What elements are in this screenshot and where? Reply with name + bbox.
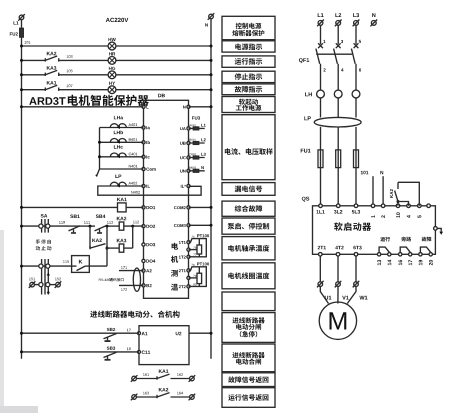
title CJK — [68, 95, 149, 106]
terminal box spare — [222, 292, 275, 311]
label RS-485 port CJK — [109, 278, 123, 281]
CT LP label — [115, 175, 121, 178]
junction N bus HR — [210, 59, 213, 62]
CT LH circle 2 — [334, 90, 342, 98]
softstarter top pin 1 — [371, 204, 375, 208]
softstarter top pin 1L1 — [319, 204, 323, 208]
pin Ib — [142, 141, 145, 144]
wire lamp row HG — [22, 74, 212, 76]
junction Nbus COM3 — [210, 224, 213, 227]
wire N402 label — [131, 191, 140, 194]
breaker QF1 linkage — [316, 53, 352, 55]
pin 2T1 — [187, 269, 190, 272]
wire LP 3 out — [355, 127, 357, 150]
net 101 label — [361, 171, 369, 174]
contact KA2 aux out wire right — [171, 396, 190, 398]
wire L2 drop to QF1 — [337, 25, 339, 44]
label motor temp 3 — [171, 270, 178, 277]
pin IL label — [146, 185, 150, 188]
pin DO3 label — [146, 243, 155, 246]
scan shading left edge — [0, 230, 4, 413]
motor terminal 4T2 — [335, 281, 342, 288]
pin N label — [183, 106, 186, 109]
power terminal L3 label — [353, 13, 359, 17]
terminal box softstart power text 2 — [236, 105, 262, 111]
softstarter bottom pin 4T2 — [336, 253, 340, 257]
wire FU1 2 out — [337, 150, 339, 206]
contact KA3 row HG wirenum — [67, 70, 73, 73]
wire N601 num — [190, 167, 197, 169]
softstarter aux contact 13 pins — [377, 253, 380, 256]
pushbutton SB2 wirenum — [127, 329, 131, 332]
pin Ia — [142, 126, 145, 129]
wire node113 drop — [106, 226, 108, 266]
lamp HY label HY — [109, 82, 115, 85]
wire N pin — [189, 106, 212, 108]
junction bus DO1 — [20, 206, 23, 209]
breaker QF1 pin 5 — [359, 40, 361, 43]
softstarter pin label 3L2 — [334, 210, 342, 214]
terminal box pump start stop ctrl — [222, 218, 275, 234]
pin DO1 — [142, 206, 145, 209]
label RS-485 port — [99, 279, 110, 281]
motor terminal 6T3 — [353, 281, 360, 288]
pushbutton SB3 symbol — [104, 352, 117, 360]
softstarter aux pin 13 — [377, 260, 381, 265]
selector SA contact3 — [39, 283, 50, 287]
softstarter aux pin 14 — [388, 260, 392, 266]
contact KA2 aux out label — [159, 388, 169, 392]
terminal box run signal return text 1 — [228, 394, 268, 401]
contact KA1 row HY label — [47, 81, 57, 84]
terminal L1 label — [14, 21, 19, 24]
wire COM3 — [189, 224, 212, 226]
softstarter aux contact 13 label — [380, 237, 390, 242]
pin Ic label — [146, 155, 149, 158]
contact KA2 aux out terminal right — [189, 394, 196, 401]
pin DO2 — [142, 225, 145, 228]
terminal box combined fault — [222, 201, 275, 216]
motor terminal 2T1 — [317, 281, 324, 288]
softstarter top pin 5L3 — [354, 204, 358, 208]
junction left bus HY — [20, 88, 23, 91]
selector SA text line1 — [36, 239, 51, 244]
terminal box breaker elec close text 1 — [232, 352, 264, 358]
breaker QF1 pole 3 blade — [351, 49, 355, 64]
pin B2 — [142, 284, 145, 287]
breaker QF1 pole 3 x-mark — [354, 43, 359, 48]
contact KA3 row HG label — [47, 66, 57, 70]
softstarter pin label 6T3 — [353, 246, 361, 250]
contact KA2 fixed stub — [397, 182, 399, 189]
pin UA — [187, 127, 190, 130]
wire motor lead 6T3 — [347, 287, 356, 304]
pin UB — [187, 141, 190, 144]
softstarter right pin — [434, 227, 438, 231]
relay coil KA1 label — [117, 198, 127, 201]
pushbutton SB3 wire left — [22, 351, 140, 353]
CT LHc label — [114, 145, 123, 148]
softstarter top pin 4 — [407, 204, 411, 208]
wire DO1 row left — [22, 206, 118, 208]
softstarter aux contact 16 label — [401, 237, 411, 242]
wire LP 2 out — [337, 127, 339, 150]
sensor PT100 no2 wire num a — [191, 264, 194, 266]
motor lead label V1 — [342, 296, 349, 300]
contact KA2 row HR — [45, 56, 58, 62]
pin C11 — [138, 350, 141, 353]
relay coil KA3 label — [117, 239, 127, 243]
pin DO1 label — [146, 206, 155, 209]
contact KA1 aux out contact — [157, 374, 170, 380]
wire LHb row — [100, 141, 144, 143]
CT LHc — [110, 153, 126, 158]
junction N bus HY — [210, 88, 213, 91]
pin UB label — [180, 142, 186, 145]
pin C11 label — [142, 351, 151, 354]
wire LHa row — [100, 127, 144, 129]
softstarter pin label 5L3 — [352, 210, 360, 214]
terminal box ctrl power fuse prot text 1 — [236, 23, 262, 29]
contact KA1 aux out wire left — [136, 378, 157, 380]
terminal 151 — [29, 281, 36, 288]
softstarter pin num 4 — [407, 215, 411, 218]
terminal box breaker elec open (estop) text 3 — [240, 331, 257, 337]
wire LH 2 out — [337, 98, 339, 118]
contact K label — [79, 260, 83, 264]
CT LHb — [110, 139, 126, 144]
contact KA3 row HG — [45, 70, 58, 76]
breaker mech box — [139, 326, 189, 365]
lamp HW label HW — [109, 38, 116, 41]
pin N — [187, 105, 190, 108]
contact KA1 aux out terminal right label — [177, 373, 183, 376]
selector SA text line2 — [36, 246, 52, 250]
wire 112 segment — [124, 225, 144, 227]
softstarter aux contact 16 pins — [399, 253, 402, 256]
wire KA2 loop to pin5 — [398, 182, 419, 206]
junction Nbus COM2 — [210, 206, 213, 209]
relay coil KA3 — [119, 244, 124, 252]
contact KA2 aux — [90, 244, 107, 250]
pushbutton SB3 label — [107, 347, 115, 350]
contact KA2 aux out terminal right label — [177, 392, 183, 395]
pin A1 — [138, 332, 141, 335]
contact KA1 row HY — [45, 85, 58, 91]
wire KA3 row right — [124, 247, 133, 249]
sensor PT100 no1 wire top — [189, 239, 207, 257]
CT LH label — [305, 92, 312, 96]
softstarter pin label 2T1 — [318, 246, 326, 250]
sensor PT100 no1 wire num c — [193, 254, 196, 256]
pushbutton SB1 — [69, 226, 81, 233]
wire left bus — [21, 20, 23, 359]
sensor PT100 no2 resistor — [197, 273, 202, 283]
wire 151 to SA — [34, 284, 38, 286]
wire 119 label — [59, 221, 65, 224]
pin 1T2 label — [179, 256, 186, 259]
pin 1T2 — [187, 255, 190, 258]
pin Ic — [142, 155, 145, 158]
junction Nbus U2 — [210, 332, 213, 335]
fuse FU3 label — [192, 116, 200, 119]
terminal box motor bearing temp text 1 — [228, 245, 269, 252]
wire 111 label — [84, 221, 90, 224]
wire UN stub — [189, 170, 205, 172]
CT LH circle 3 — [352, 90, 360, 98]
power terminal L1 label — [318, 13, 324, 17]
net L2 label — [201, 138, 205, 141]
pin UN label — [180, 170, 186, 173]
DB block — [144, 100, 189, 298]
pin DO3 — [142, 243, 145, 246]
pushbutton SB1 label — [70, 215, 79, 219]
pin L label — [146, 105, 148, 108]
softstarter aux contact 13 symbol — [379, 247, 389, 252]
pin PT100 mid — [187, 276, 190, 279]
label motor temp 2 — [171, 256, 178, 263]
pin DO4 — [142, 259, 145, 262]
contact KA1 aux out terminal right — [189, 375, 196, 382]
ground arrow — [95, 169, 99, 177]
net L1 label — [201, 124, 206, 127]
CT LHa — [110, 124, 126, 129]
fuse FU2 body — [20, 28, 24, 37]
terminal box leakage signal — [222, 183, 275, 196]
wire K row — [22, 265, 72, 267]
pin B2 label — [146, 284, 151, 287]
pin UC label — [180, 156, 186, 159]
wire QF1 pole 1 out — [320, 64, 322, 90]
contact KA2 at QS label — [390, 189, 393, 198]
wire L3 drop to QF1 — [355, 25, 357, 44]
junction left bus HR — [20, 59, 23, 62]
power terminal N label — [372, 13, 375, 17]
terminal box ctrl power fuse prot — [222, 16, 275, 39]
wire node111 drop — [89, 226, 91, 248]
wire UA stub — [189, 127, 205, 129]
wire N401 label — [129, 165, 138, 168]
softstarter top pin aux — [427, 204, 431, 208]
wire LH 3 out — [355, 98, 357, 118]
junction bus L — [20, 105, 23, 108]
wire DO1 row right — [126, 206, 143, 208]
pin COM3 — [187, 224, 190, 227]
pin A2 label — [146, 269, 152, 272]
wire N bus — [210, 19, 212, 359]
pin Ib label — [146, 141, 150, 144]
terminal box fault ind — [222, 84, 275, 95]
wire A2 row — [119, 270, 144, 272]
wire pin10 riser — [397, 202, 399, 206]
DB label — [158, 94, 165, 97]
terminal L1 — [18, 14, 25, 21]
wire U2 to N bus — [189, 332, 211, 334]
contact KA1 aux out terminal left — [131, 375, 138, 382]
junction N bus HG — [210, 73, 213, 76]
sensor PT100 no1 wire mid — [189, 249, 198, 251]
terminal box breaker elec open (estop) text 2 — [236, 324, 261, 330]
power terminal N — [370, 20, 377, 27]
terminal N label — [205, 23, 208, 26]
terminal box motor winding temp text 1 — [228, 272, 269, 279]
lamp HG label HG — [109, 67, 115, 70]
pushbutton SB4 label — [96, 215, 106, 219]
terminal box softstart power text 1 — [239, 99, 258, 105]
fuse FU3 UA — [193, 127, 198, 130]
junction bus DO2 — [20, 225, 23, 228]
terminal N — [208, 13, 215, 20]
wire 2T1 to motor terminal — [319, 256, 321, 282]
pushbutton SB2 label — [107, 328, 115, 331]
power terminal L1 — [317, 20, 324, 27]
junction N bus HW — [210, 45, 213, 48]
pushbutton SB2 wire left — [22, 332, 140, 334]
sensor PT100 no2 resistor taps — [198, 267, 200, 287]
sensor PT100 no1 wire num a — [191, 236, 194, 238]
fuse FU1 label — [301, 149, 311, 153]
wire 113 label — [107, 221, 113, 224]
softstarter top pin 2 — [381, 204, 385, 208]
pin 2T1 label — [179, 269, 186, 272]
junction 111 — [89, 225, 92, 228]
pin COM2 — [187, 206, 190, 209]
terminal 151 label — [29, 278, 35, 281]
wire COM2 — [189, 206, 212, 208]
terminal box current voltage sampling text 1 — [225, 148, 273, 155]
softstarter aux pin 17 — [409, 260, 413, 265]
softstarter pin num 10 — [396, 212, 400, 217]
pin DO4 label — [146, 260, 155, 263]
junction Nbus N — [210, 105, 213, 108]
softstarter aux contact 16 symbol — [400, 247, 410, 252]
wire UB stub — [189, 142, 205, 144]
motor M — [319, 302, 356, 339]
pin IL* — [187, 184, 190, 187]
wire L1 drop to QF1 — [320, 25, 322, 44]
contact KA1 aux out terminal left label — [143, 373, 149, 376]
wire gap KA1 — [45, 89, 59, 91]
fuse FU1 3 — [354, 150, 359, 168]
wire B601 num — [190, 139, 196, 141]
CT LP ring — [314, 117, 361, 127]
softstarter aux contact 19 pins — [419, 253, 422, 256]
breaker QF1 pole 1 blade — [316, 49, 320, 64]
junction bus K row — [20, 265, 23, 268]
terminal 152 label — [55, 278, 61, 281]
wire L pin — [22, 106, 144, 108]
selector SA arrow1 — [47, 273, 50, 276]
wire 171 label — [121, 266, 127, 269]
label breaker mechanism — [90, 311, 179, 318]
terminal box ctrl power fuse prot text 2 — [232, 30, 264, 36]
pin 1T1 label — [179, 241, 186, 244]
terminal box run ind text 1 — [235, 58, 263, 65]
wire LHc row — [100, 156, 144, 158]
sensor PT100 no1 resistor — [197, 245, 202, 254]
terminal box run signal return — [222, 388, 275, 408]
junction bus pushbutton SB2 — [20, 332, 23, 335]
breaker QF1 pin 6 — [359, 68, 361, 71]
junction left bus HG — [20, 73, 23, 76]
selector SA contact2 — [39, 259, 50, 295]
terminal box breaker elec close — [222, 344, 275, 372]
wire B2 row — [119, 284, 144, 286]
wire DO2 row — [22, 225, 70, 227]
softstarter aux pin 16 — [399, 260, 403, 265]
breaker QF1 pole 1 x-mark — [318, 43, 323, 48]
fuse FU1 2 — [336, 150, 341, 168]
contact KA2 aux out terminal left label — [143, 392, 149, 395]
contact KA2 aux out contact — [157, 393, 170, 399]
pin UC — [187, 156, 190, 159]
softstarter bottom pin 2T1 — [319, 253, 323, 257]
CT LH circle 1 — [317, 90, 325, 98]
wire gap KA2 — [45, 59, 59, 61]
breaker QF1 pin 1 — [323, 40, 325, 43]
wire node to pin4 — [398, 202, 409, 206]
softstarter pin num 2 — [381, 215, 385, 218]
softstarter aux pin 19 — [419, 260, 423, 265]
terminal box fault ind text 1 — [235, 86, 263, 93]
sensor PT100 no2 wire mid — [189, 277, 198, 279]
sensor PT100 no2 wire num c — [193, 283, 196, 285]
pin 1T1 — [187, 241, 190, 244]
wire QF1 pole 3 out — [355, 64, 357, 90]
power terminal L2 — [335, 20, 342, 27]
contact box K — [72, 256, 90, 273]
sensor PT100 no1 label — [197, 234, 209, 237]
net N label — [201, 166, 204, 169]
wire net N stub — [382, 176, 384, 206]
junction 113 drop at KA3 row — [106, 247, 109, 250]
pin A2 — [142, 269, 145, 272]
contact KA1 aux out label — [159, 370, 169, 373]
pin 2T2 label — [179, 285, 186, 288]
wire lamp row HW — [22, 45, 212, 47]
contact KA2 row HR label — [47, 52, 57, 56]
pushbutton SB4 — [95, 226, 107, 233]
lamp HW — [108, 42, 116, 50]
label motor temp 1 — [172, 243, 179, 250]
pin COM2 label — [174, 206, 186, 209]
lamp HY — [108, 86, 116, 94]
pin Com — [142, 167, 145, 170]
junction left bus HW — [20, 45, 23, 48]
wire 6T3 to motor terminal — [355, 256, 357, 282]
wire N402 loop — [98, 186, 201, 195]
breaker QF1 label — [299, 58, 309, 63]
terminal box power ind — [222, 41, 275, 52]
pin UN — [187, 169, 190, 172]
terminal box stop ind text 1 — [235, 73, 263, 80]
CT LP ring label — [304, 116, 310, 120]
softstarter pin num 5 — [418, 215, 422, 218]
CT LHb label — [114, 131, 123, 135]
wire motor lead 4T2 — [337, 287, 339, 304]
wire LP 1 out — [320, 127, 322, 150]
softstarter aux contact 19 symbol — [420, 247, 430, 252]
motor lead label U1 — [325, 296, 332, 300]
terminal box fault signal return text 1 — [228, 376, 268, 382]
softstarter aux contact 19 label — [422, 237, 432, 242]
softstarter pin label 4T2 — [335, 246, 343, 250]
sensor PT100 no1 wire num b — [193, 247, 196, 249]
wire 112 label — [133, 221, 139, 224]
selector SA arrow2 — [47, 290, 50, 293]
terminal box stop ind — [222, 71, 275, 82]
wire lamp row HY — [22, 89, 212, 91]
